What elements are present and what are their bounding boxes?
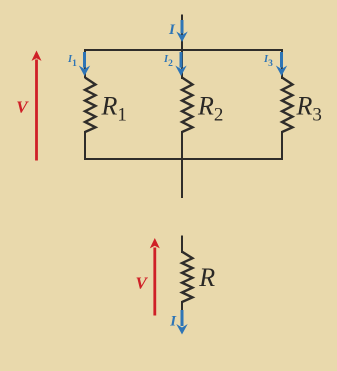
wire: equivalent circuit upper lead bbox=[181, 236, 183, 254]
wire: middle branch upper segment bbox=[181, 50, 183, 79]
current arrow I1 bbox=[79, 52, 90, 76]
voltage arrow V (equivalent circuit) bbox=[150, 238, 160, 316]
voltage arrow V (top circuit) bbox=[32, 51, 42, 161]
current arrow I3 bbox=[276, 52, 287, 76]
wire: right branch upper segment bbox=[281, 50, 283, 79]
wire: equivalent circuit lower lead bbox=[181, 301, 183, 311]
svg-text:I: I bbox=[168, 22, 176, 38]
wire: right branch lower segment bbox=[281, 131, 283, 160]
current arrow I (top feed) bbox=[176, 20, 187, 42]
current arrow I2 bbox=[175, 52, 186, 76]
svg-text:V: V bbox=[136, 273, 149, 292]
resistor R1 bbox=[85, 78, 96, 133]
resistor R2 bbox=[182, 78, 193, 133]
wire: bottom tail bbox=[181, 159, 183, 198]
wire: bottom horizontal bus bbox=[84, 158, 283, 160]
wire: left branch upper segment bbox=[84, 50, 86, 78]
svg-text:R: R bbox=[198, 263, 215, 292]
current arrow I (equivalent, bottom) bbox=[176, 310, 187, 335]
wire: top feed stub bbox=[181, 15, 183, 51]
wire: middle branch lower segment bbox=[181, 131, 183, 160]
resistor R (equivalent) bbox=[182, 252, 193, 302]
wire: left branch lower segment bbox=[84, 131, 86, 160]
svg-text:I: I bbox=[169, 314, 177, 330]
svg-text:V: V bbox=[16, 98, 29, 117]
wire: top horizontal bus bbox=[84, 49, 283, 51]
resistor R3 bbox=[282, 78, 293, 133]
